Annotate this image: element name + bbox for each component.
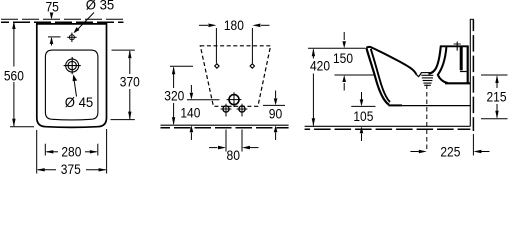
svg-text:420: 420 (310, 59, 330, 74)
dimension 560 (left) (10, 23, 34, 127)
drain (rear view) (227, 92, 242, 107)
label Ø35 with leader (75, 13, 95, 33)
drain block with hatch (421, 73, 434, 86)
front inner slant (371, 49, 390, 102)
fixing holes top (diamonds) (215, 64, 255, 68)
bidet silhouette (dashed trapezoid) (200, 46, 270, 107)
svg-text:105: 105 (353, 109, 373, 124)
svg-text:150: 150 (333, 51, 353, 66)
main underside to wall (389, 104, 403, 106)
bidet outer rim (plan) (37, 24, 107, 128)
dimension 150 (side view upper-left) (308, 32, 374, 91)
floor (161, 125, 289, 128)
svg-text:320: 320 (164, 88, 184, 103)
drain centerline dashes (down to 225 dim) (426, 85, 428, 152)
bidet profile (side) (366, 42, 470, 152)
inner basin (plan) (45, 50, 98, 120)
deck/back right edge (467, 47, 469, 84)
front outer slant (366, 48, 389, 105)
svg-text:180: 180 (224, 18, 244, 33)
tap hole Ø35 (67, 33, 76, 42)
svg-text:Ø 35: Ø 35 (86, 0, 115, 12)
svg-text:215: 215 (487, 89, 507, 104)
tap hole bore (section) (460, 47, 463, 70)
small ledge before drain (416, 73, 421, 77)
svg-text:Ø 45: Ø 45 (65, 95, 94, 110)
svg-text:280: 280 (61, 145, 81, 160)
deck top (440, 45, 469, 47)
dimension 105 (side view bottom-left) (351, 92, 375, 141)
svg-text:370: 370 (120, 74, 140, 89)
rear underside (445, 82, 470, 84)
svg-text:140: 140 (180, 105, 200, 120)
dimension 320 (middle left) (170, 66, 193, 124)
dimension 225 (bottom right) (410, 134, 489, 156)
dimension 280 (bottom of plan) (45, 144, 98, 156)
wall (top, hatched band) (1, 19, 124, 22)
rear basin wall outer (438, 47, 448, 83)
wall (right, vertical band) (470, 19, 474, 131)
svg-text:375: 375 (61, 162, 81, 176)
svg-text:225: 225 (440, 145, 460, 160)
svg-text:560: 560 (4, 69, 24, 84)
dimension 215 (right) (481, 75, 508, 119)
drain hole Ø45 (64, 57, 81, 74)
svg-text:80: 80 (227, 148, 241, 163)
tap hole centerline on deck (456, 42, 458, 51)
dimension 90 (middle right) (263, 91, 285, 141)
dimension 370 (right of plan) (111, 50, 135, 120)
bottom of tap bore (460, 71, 467, 73)
svg-text:75: 75 (45, 0, 59, 15)
dimension 420 (side view left) (312, 50, 314, 126)
rear basin wall inner (429, 47, 441, 74)
floor (305, 126, 471, 129)
basin interior curve (366, 47, 416, 75)
svg-text:90: 90 (269, 106, 283, 121)
fixing holes bottom (circles) (221, 104, 248, 117)
dimension 375 (bottom of plan) (37, 129, 107, 174)
dimension 80 (bottom middle) (209, 130, 259, 152)
dimension 75 (top-left) (48, 13, 61, 46)
dimension 180 (top middle) (199, 25, 270, 63)
label Ø45 with leader (74, 76, 77, 97)
dimension 140 (middle) (187, 85, 220, 140)
